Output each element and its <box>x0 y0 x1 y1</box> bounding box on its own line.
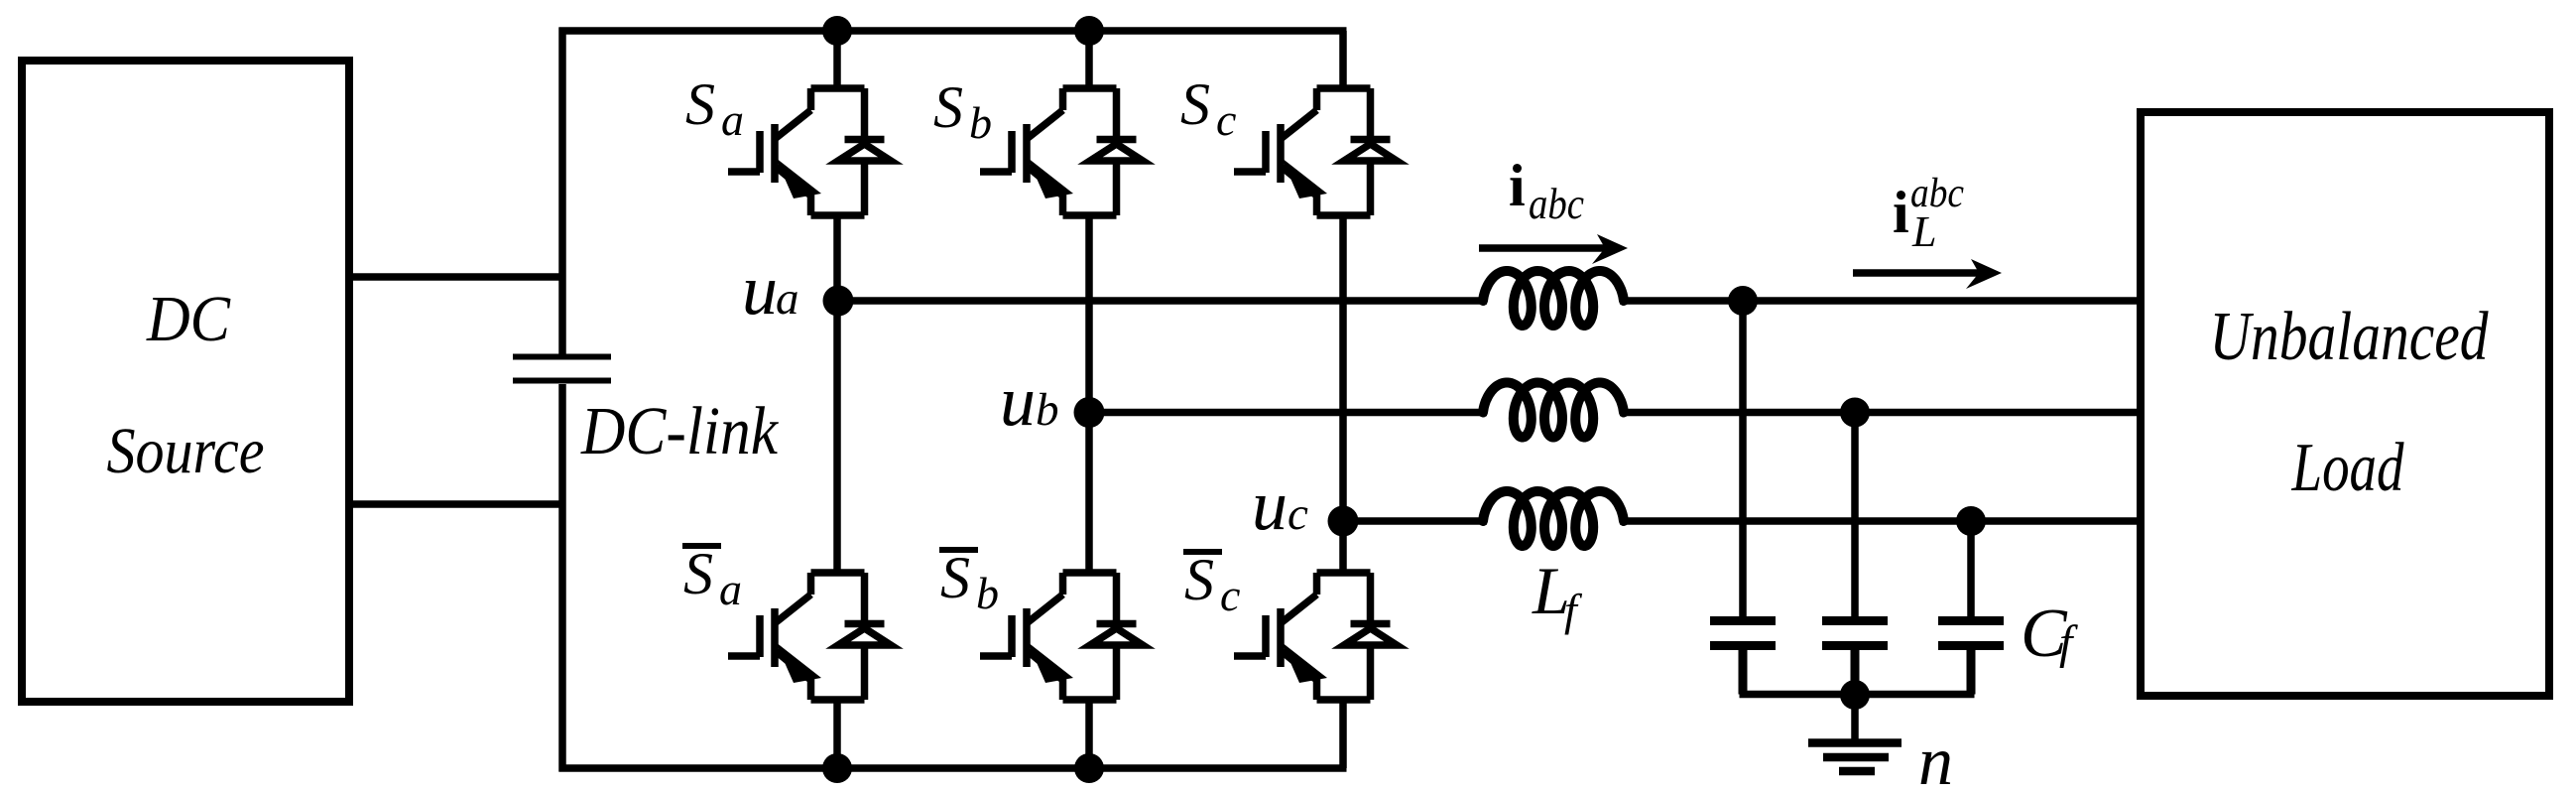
transistor Sc-bar (lower IGBT with diode) <box>1234 573 1397 700</box>
ground symbol <box>1808 743 1901 772</box>
wire phase a down to capacitor <box>1739 301 1747 617</box>
wire phase a inductor to load <box>1620 297 2145 305</box>
transistor Sa-bar (lower IGBT with diode) <box>728 573 891 700</box>
svg-text:S: S <box>933 74 963 140</box>
wire mid leg phase a <box>833 214 841 574</box>
transistor Sa (upper IGBT with diode) <box>728 88 891 215</box>
arrow i_L <box>1853 269 1982 277</box>
node uc dot <box>1328 506 1359 537</box>
svg-text:DC: DC <box>146 283 231 355</box>
wire capacitor common bar <box>1740 691 1975 699</box>
inductor Lb (filter) <box>1483 383 1624 438</box>
svg-text:b: b <box>969 97 992 148</box>
svg-text:c: c <box>1216 94 1236 145</box>
svg-text:L: L <box>1911 207 1936 256</box>
wire mid leg phase b <box>1085 214 1093 574</box>
node top rail junction b <box>1074 16 1104 46</box>
svg-text:abc: abc <box>1529 180 1584 228</box>
wire DC+ <box>349 273 565 281</box>
wire DC- <box>349 500 565 508</box>
wire phase c inductor to load <box>1620 517 2145 525</box>
transistor Sb (upper IGBT with diode) <box>980 88 1143 215</box>
node ub dot <box>1074 397 1105 428</box>
svg-text:i: i <box>1509 153 1526 218</box>
svg-text:u: u <box>742 250 778 330</box>
wire phase a to inductor <box>837 297 1487 305</box>
wire top terminal phase c <box>1339 31 1347 89</box>
svg-text:b: b <box>1036 384 1059 436</box>
svg-text:b: b <box>976 568 999 618</box>
wire top terminal phase a <box>833 31 841 89</box>
svg-text:S: S <box>1184 547 1214 612</box>
svg-text:Load: Load <box>2291 430 2405 506</box>
node top rail junction a <box>822 16 852 46</box>
wire phase b inductor to load <box>1620 409 2145 417</box>
capacitor Cf phase c <box>1938 621 2004 695</box>
wire phase b to inductor <box>1089 409 1487 417</box>
svg-text:S: S <box>1180 71 1210 137</box>
DC Source box <box>22 61 349 702</box>
svg-text:a: a <box>719 564 742 614</box>
wire inverter left bus <box>558 28 566 772</box>
wire bottom terminal phase c <box>1339 699 1347 768</box>
capacitor Cf phase b <box>1822 621 1888 695</box>
svg-text:Unbalanced: Unbalanced <box>2210 299 2490 375</box>
node bottom rail junction a <box>822 753 852 783</box>
svg-text:Source: Source <box>107 415 265 487</box>
svg-text:S: S <box>940 545 970 610</box>
svg-text:u: u <box>1252 465 1288 545</box>
node phase c filter tap dot <box>1956 506 1986 536</box>
inductor Lc (filter) <box>1483 491 1624 546</box>
node phase b filter tap dot <box>1840 398 1870 428</box>
wire phase c down to capacitor <box>1967 521 1975 617</box>
arrow i_abc <box>1479 244 1608 252</box>
wire top DC rail <box>559 27 1347 35</box>
wire phase c to inductor <box>1343 517 1487 525</box>
capacitor Cf phase a <box>1710 621 1776 695</box>
svg-text:c: c <box>1288 488 1308 540</box>
node phase a filter tap dot <box>1728 286 1758 316</box>
wire bottom terminal phase a <box>833 699 841 768</box>
svg-text:DC-link: DC-link <box>580 393 779 468</box>
capacitor DC-link <box>513 357 611 381</box>
wire bottom DC rail <box>559 764 1347 772</box>
inductor La (filter) <box>1483 271 1624 326</box>
wire neutral stem <box>1851 695 1859 740</box>
svg-text:S: S <box>685 71 715 137</box>
wire bottom terminal phase b <box>1085 699 1093 768</box>
svg-text:c: c <box>1220 570 1240 620</box>
svg-text:a: a <box>776 273 799 325</box>
transistor Sc (upper IGBT with diode) <box>1234 88 1397 215</box>
Unbalanced Load box <box>2141 112 2549 696</box>
transistor Sb-bar (lower IGBT with diode) <box>980 573 1143 700</box>
wire top terminal phase b <box>1085 31 1093 89</box>
svg-text:S: S <box>683 541 713 606</box>
svg-text:a: a <box>721 94 744 145</box>
node ua dot <box>823 286 854 317</box>
svg-text:n: n <box>1918 724 1953 793</box>
node bottom rail junction b <box>1074 753 1104 783</box>
svg-text:i: i <box>1893 180 1909 245</box>
svg-text:u: u <box>1000 361 1036 441</box>
wire phase b down to capacitor <box>1851 413 1859 618</box>
wire mid leg phase c <box>1339 214 1347 574</box>
node neutral dot <box>1840 680 1870 710</box>
